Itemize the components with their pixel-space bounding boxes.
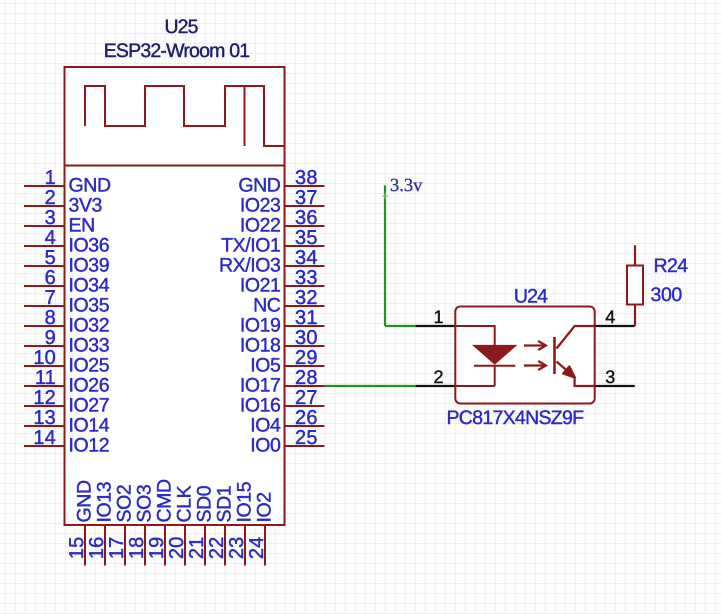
svg-text:34: 34 — [295, 247, 318, 269]
svg-text:IO35: IO35 — [69, 295, 110, 317]
svg-text:U24: U24 — [514, 285, 548, 307]
svg-text:GND: GND — [69, 175, 111, 197]
svg-text:36: 36 — [295, 207, 318, 229]
svg-text:3V3: 3V3 — [69, 195, 103, 217]
svg-text:IO17: IO17 — [240, 375, 281, 397]
svg-text:U25: U25 — [164, 16, 198, 38]
svg-text:ESP32-Wroom 01: ESP32-Wroom 01 — [104, 40, 250, 62]
svg-text:27: 27 — [295, 387, 318, 409]
svg-text:18: 18 — [126, 537, 148, 560]
svg-text:IO4: IO4 — [250, 415, 281, 437]
svg-text:R24: R24 — [654, 255, 689, 277]
svg-text:PC817X4NSZ9F: PC817X4NSZ9F — [447, 407, 585, 429]
svg-text:TX/IO1: TX/IO1 — [221, 235, 280, 257]
svg-text:RX/IO3: RX/IO3 — [219, 255, 281, 277]
svg-text:IO22: IO22 — [240, 215, 281, 237]
svg-text:IO12: IO12 — [69, 435, 110, 457]
svg-text:14: 14 — [33, 427, 56, 449]
svg-text:15: 15 — [66, 537, 88, 560]
svg-text:IO18: IO18 — [240, 335, 281, 357]
svg-text:30: 30 — [295, 327, 318, 349]
svg-text:22: 22 — [206, 537, 228, 560]
svg-text:IO19: IO19 — [240, 315, 281, 337]
svg-text:4: 4 — [45, 227, 56, 249]
svg-text:5: 5 — [45, 247, 56, 269]
svg-text:12: 12 — [33, 387, 56, 409]
svg-text:24: 24 — [246, 537, 268, 560]
svg-text:IO36: IO36 — [69, 235, 110, 257]
svg-text:IO39: IO39 — [69, 255, 110, 277]
svg-text:2: 2 — [433, 367, 443, 387]
svg-text:SO3: SO3 — [134, 485, 156, 523]
svg-text:IO25: IO25 — [69, 355, 110, 377]
svg-text:21: 21 — [186, 537, 208, 560]
svg-text:16: 16 — [86, 537, 108, 560]
svg-text:10: 10 — [33, 347, 56, 369]
svg-text:6: 6 — [45, 267, 56, 289]
svg-text:IO26: IO26 — [69, 375, 110, 397]
svg-text:GND: GND — [74, 480, 96, 522]
svg-text:IO13: IO13 — [94, 482, 116, 523]
svg-text:IO23: IO23 — [240, 195, 281, 217]
svg-text:IO32: IO32 — [69, 315, 110, 337]
svg-text:28: 28 — [295, 367, 318, 389]
svg-text:CLK: CLK — [174, 485, 196, 522]
svg-text:35: 35 — [295, 227, 318, 249]
svg-text:9: 9 — [45, 327, 56, 349]
svg-text:17: 17 — [106, 537, 128, 560]
svg-text:8: 8 — [45, 307, 56, 329]
svg-text:32: 32 — [295, 287, 318, 309]
svg-text:300: 300 — [651, 284, 683, 306]
svg-text:IO16: IO16 — [240, 395, 281, 417]
svg-text:IO14: IO14 — [69, 415, 110, 437]
svg-text:31: 31 — [295, 307, 318, 329]
svg-text:25: 25 — [295, 427, 318, 449]
svg-text:SD0: SD0 — [194, 485, 216, 522]
svg-text:26: 26 — [295, 407, 318, 429]
svg-text:EN: EN — [69, 215, 95, 237]
svg-text:3.3v: 3.3v — [390, 176, 423, 196]
svg-text:IO27: IO27 — [69, 395, 110, 417]
svg-text:IO5: IO5 — [250, 355, 281, 377]
svg-text:29: 29 — [295, 347, 318, 369]
svg-text:13: 13 — [33, 407, 56, 429]
svg-text:38: 38 — [295, 167, 318, 189]
svg-text:GND: GND — [238, 175, 280, 197]
svg-text:19: 19 — [146, 537, 168, 560]
svg-text:7: 7 — [45, 287, 56, 309]
svg-text:11: 11 — [35, 367, 56, 389]
svg-text:2: 2 — [45, 187, 56, 209]
svg-text:4: 4 — [605, 307, 615, 327]
svg-text:IO33: IO33 — [69, 335, 110, 357]
svg-text:SO2: SO2 — [114, 485, 136, 523]
svg-text:CMD: CMD — [154, 479, 176, 523]
svg-text:20: 20 — [166, 537, 188, 560]
svg-text:23: 23 — [226, 537, 248, 560]
svg-text:IO34: IO34 — [69, 275, 110, 297]
svg-text:1: 1 — [45, 167, 56, 189]
svg-text:NC: NC — [253, 295, 281, 317]
svg-text:37: 37 — [295, 187, 318, 209]
svg-text:SD1: SD1 — [214, 486, 236, 523]
svg-text:IO21: IO21 — [240, 275, 281, 297]
svg-text:IO2: IO2 — [254, 492, 276, 522]
svg-text:1: 1 — [433, 307, 443, 327]
svg-text:IO0: IO0 — [250, 435, 281, 457]
svg-text:IO15: IO15 — [234, 481, 256, 522]
svg-text:3: 3 — [605, 367, 615, 387]
svg-text:33: 33 — [295, 267, 318, 289]
svg-text:3: 3 — [45, 207, 56, 229]
